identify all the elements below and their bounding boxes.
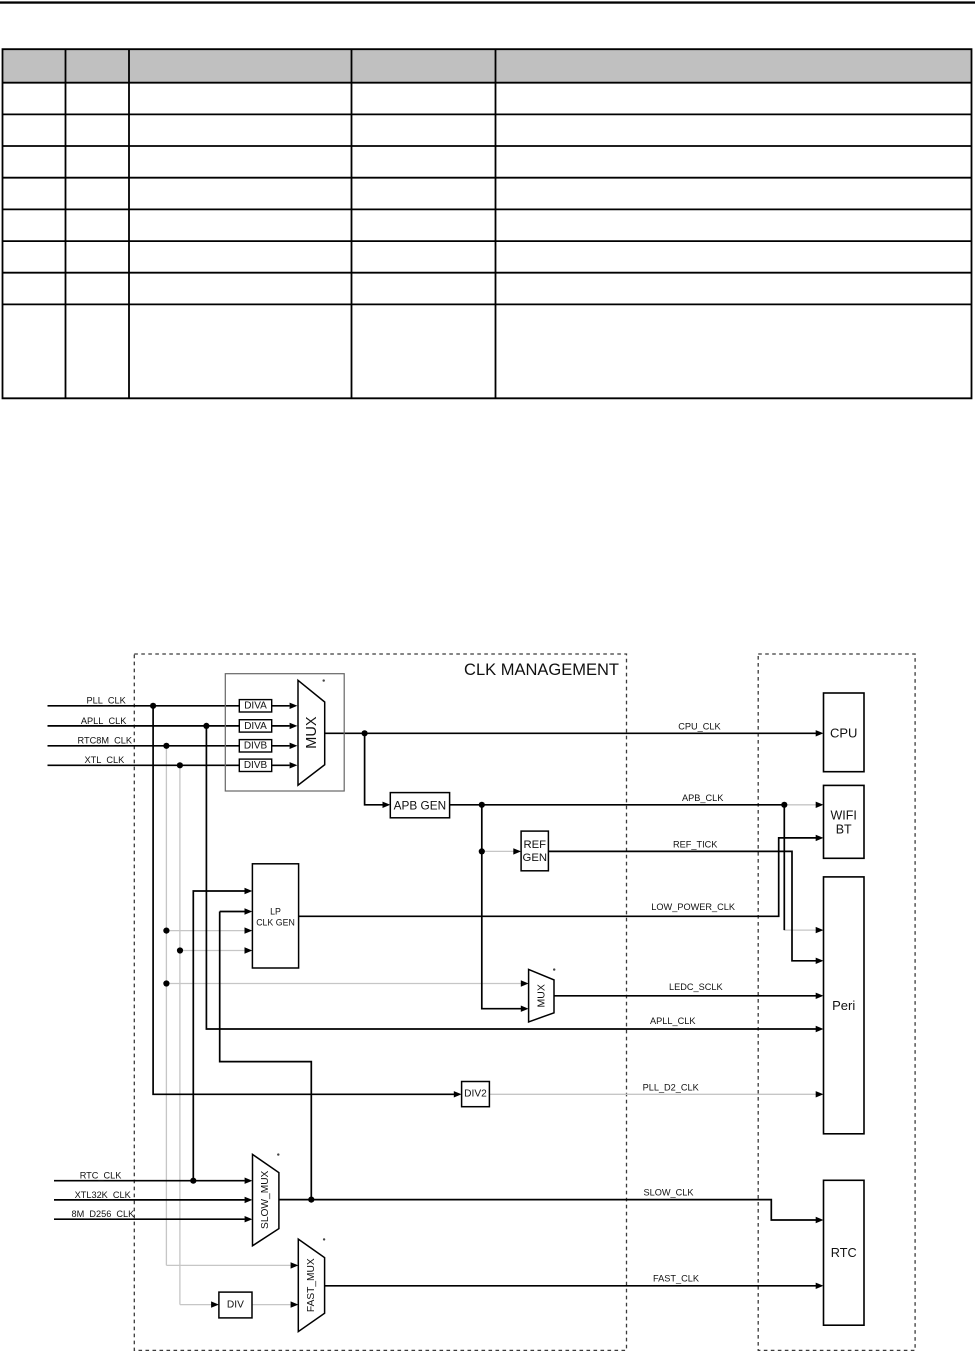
node XTL_CLK junction xyxy=(177,762,183,768)
arrowheads into SLOW_MUX xyxy=(245,1178,253,1184)
svg-text:DIVA: DIVA xyxy=(244,701,267,712)
wire RTC_CLK up to LP CLK GEN input 1 xyxy=(193,891,245,1181)
wire 8M_D256_CLK input xyxy=(54,1218,245,1220)
block APB GEN xyxy=(390,793,449,818)
page header rule xyxy=(0,1,975,3)
wire gray branch to LP CLK GEN input 3 xyxy=(166,930,244,932)
svg-text:DIV: DIV xyxy=(227,1300,244,1311)
wire gray DIV to FAST_MUX input 2 xyxy=(252,1304,291,1306)
svg-text:MUX: MUX xyxy=(536,984,548,1007)
wire APB branch down to LEDC mux xyxy=(482,805,521,1009)
svg-text:XTL_CLK: XTL_CLK xyxy=(84,755,125,765)
wire DIVB2 to MUX xyxy=(272,764,290,766)
svg-text:8M_D256_CLK: 8M_D256_CLK xyxy=(71,1209,135,1219)
divider box DIVA 2 xyxy=(239,720,271,732)
wire gray branch to LEDC mux input 1 xyxy=(166,983,521,985)
block LP CLK GEN xyxy=(252,864,298,968)
node LP input 4 branch xyxy=(177,947,183,953)
CPU clock group box xyxy=(225,674,344,791)
node PLL_CLK junction xyxy=(150,703,156,709)
wire XTL_CLK input xyxy=(48,764,240,766)
mux FAST_MUX xyxy=(298,1239,324,1332)
arrowhead into CPU xyxy=(816,730,824,736)
svg-text:APLL_CLK: APLL_CLK xyxy=(650,1016,696,1026)
arrowhead into REF GEN xyxy=(513,848,521,854)
wire gray into REF GEN xyxy=(482,850,514,852)
arrowhead into APB GEN xyxy=(383,802,391,808)
node RTC8M_CLK junction xyxy=(163,743,169,749)
wire gray into DIV xyxy=(180,1304,212,1306)
wire REF_TICK xyxy=(548,851,816,960)
arrowheads into top MUX xyxy=(290,703,298,709)
wire APB_CLK xyxy=(450,804,785,806)
wire gray into FAST_MUX input 1 xyxy=(166,1264,290,1266)
wire XTL32K_CLK input xyxy=(54,1199,245,1201)
block REF GEN xyxy=(521,831,548,871)
node CPU_CLK junction xyxy=(362,730,368,736)
svg-text:CLK GEN: CLK GEN xyxy=(256,917,295,927)
mux LEDC MUX xyxy=(529,969,554,1022)
block WIFI BT xyxy=(824,785,865,858)
speck near SLOW_MUX xyxy=(277,1153,279,1155)
speck near CPU mux xyxy=(323,679,325,681)
node SLOW_CLK junction xyxy=(308,1197,314,1203)
wire FAST_CLK to RTC xyxy=(325,1285,816,1287)
svg-text:DIV2: DIV2 xyxy=(464,1089,487,1100)
svg-text:LOW_POWER_CLK: LOW_POWER_CLK xyxy=(651,902,736,912)
svg-text:FAST_CLK: FAST_CLK xyxy=(653,1274,700,1284)
svg-text:PLL_D2_CLK: PLL_D2_CLK xyxy=(643,1082,700,1092)
table header row background xyxy=(3,49,972,82)
svg-text:RTC8M_CLK: RTC8M_CLK xyxy=(78,736,133,746)
wire RTC8M_CLK input xyxy=(48,745,240,747)
arrowheads into LP CLK GEN xyxy=(245,888,253,894)
svg-text:APB_CLK: APB_CLK xyxy=(682,793,724,803)
svg-text:DIVB: DIVB xyxy=(244,760,268,771)
speck near FAST_MUX xyxy=(323,1238,325,1240)
svg-text:REF_TICK: REF_TICK xyxy=(673,839,718,849)
svg-text:APB GEN: APB GEN xyxy=(394,799,446,813)
wire gray APB_CLK into WIFI BT xyxy=(784,804,816,806)
arrowheads into Peri xyxy=(816,927,824,933)
node RTC_CLK junction xyxy=(190,1178,196,1184)
node APB_CLK junction 2 xyxy=(781,802,787,808)
node APB_CLK junction 1 xyxy=(479,802,485,808)
wire APB branch down to Peri xyxy=(783,805,785,930)
wire APLL_CLK down to Peri xyxy=(206,726,816,1029)
wire SLOW_CLK to RTC xyxy=(279,1200,816,1220)
svg-text:DIVA: DIVA xyxy=(244,721,267,732)
svg-text:LP: LP xyxy=(270,906,281,916)
svg-text:XTL32K_CLK: XTL32K_CLK xyxy=(75,1190,132,1200)
mux SLOW_MUX xyxy=(253,1154,279,1245)
svg-text:CPU: CPU xyxy=(830,725,857,740)
wire DIVA1 to MUX xyxy=(272,705,290,707)
wire RTC8M gray vertical trunk xyxy=(165,746,167,1266)
wire PLL_CLK input xyxy=(48,705,240,707)
block RTC xyxy=(824,1180,865,1325)
wire SLOW_CLK feedback riser xyxy=(220,912,312,1200)
node LEDC branch xyxy=(163,980,169,986)
wire CPU_CLK xyxy=(325,732,816,734)
block CPU xyxy=(824,693,865,772)
wire XTL gray vertical trunk xyxy=(179,765,181,1304)
divider box DIVB 3 xyxy=(239,740,271,752)
divider box DIVB 4 xyxy=(239,759,271,771)
arrowhead into WIFI BT input 1 xyxy=(816,802,824,808)
svg-text:REF: REF xyxy=(523,839,546,851)
svg-text:BT: BT xyxy=(836,822,852,836)
svg-text:Peri: Peri xyxy=(832,998,855,1013)
divider box DIVA 1 xyxy=(239,700,271,712)
block DIV xyxy=(219,1292,252,1318)
svg-text:RTC_CLK: RTC_CLK xyxy=(80,1171,123,1181)
svg-text:WIFI: WIFI xyxy=(831,808,857,822)
wire PLL_CLK down to DIV2 xyxy=(153,706,454,1095)
arrowhead into WIFI BT input 2 xyxy=(816,835,824,841)
wire gray PLL_D2_CLK xyxy=(489,1093,816,1095)
wire APLL_CLK input xyxy=(48,725,240,727)
svg-text:LEDC_SCLK: LEDC_SCLK xyxy=(669,982,723,992)
svg-text:SLOW_MUX: SLOW_MUX xyxy=(260,1170,271,1229)
block Peri xyxy=(824,877,865,1134)
svg-text:GEN: GEN xyxy=(523,852,547,864)
node LP input 3 branch xyxy=(163,928,169,934)
arrowheads into FAST_MUX xyxy=(291,1262,299,1268)
CLK MANAGEMENT dashed container xyxy=(134,654,626,1350)
arrowhead into DIV xyxy=(211,1301,219,1307)
svg-text:PLL_CLK: PLL_CLK xyxy=(86,696,126,706)
svg-text:MUX: MUX xyxy=(304,716,320,749)
arrowheads into RTC xyxy=(816,1217,824,1223)
svg-text:DIVB: DIVB xyxy=(244,741,268,752)
right-hand consumers dashed container xyxy=(758,654,915,1350)
wire gray branch to LP CLK GEN input 4 xyxy=(180,950,245,952)
arrowhead into DIV2 xyxy=(454,1091,462,1097)
wire MUX output to APB GEN xyxy=(365,733,383,805)
svg-text:FAST_MUX: FAST_MUX xyxy=(306,1258,317,1312)
speck near LEDC mux xyxy=(553,968,555,970)
arrowheads into LEDC mux xyxy=(521,980,529,986)
node APLL_CLK junction xyxy=(203,723,209,729)
table grid xyxy=(2,48,973,399)
wire LEDC_SCLK xyxy=(554,995,816,997)
wire DIVA2 to MUX xyxy=(272,725,290,727)
svg-text:RTC: RTC xyxy=(831,1246,857,1260)
wire SLOW_CLK into LP CLK GEN input 2 xyxy=(220,911,245,913)
wire gray APB_CLK into Peri input 1 xyxy=(784,929,816,931)
svg-text:SLOW_CLK: SLOW_CLK xyxy=(644,1188,695,1198)
wire RTC_CLK input xyxy=(54,1180,245,1182)
node REF GEN branch xyxy=(479,848,485,854)
svg-text:CLK MANAGEMENT: CLK MANAGEMENT xyxy=(464,661,619,679)
mux CPU clock MUX xyxy=(298,680,325,785)
svg-text:APLL_CLK: APLL_CLK xyxy=(81,716,127,726)
svg-text:CPU_CLK: CPU_CLK xyxy=(678,721,721,731)
wire DIVB1 to MUX xyxy=(272,745,290,747)
wire LOW_POWER_CLK xyxy=(299,838,816,916)
block DIV2 xyxy=(462,1082,490,1107)
